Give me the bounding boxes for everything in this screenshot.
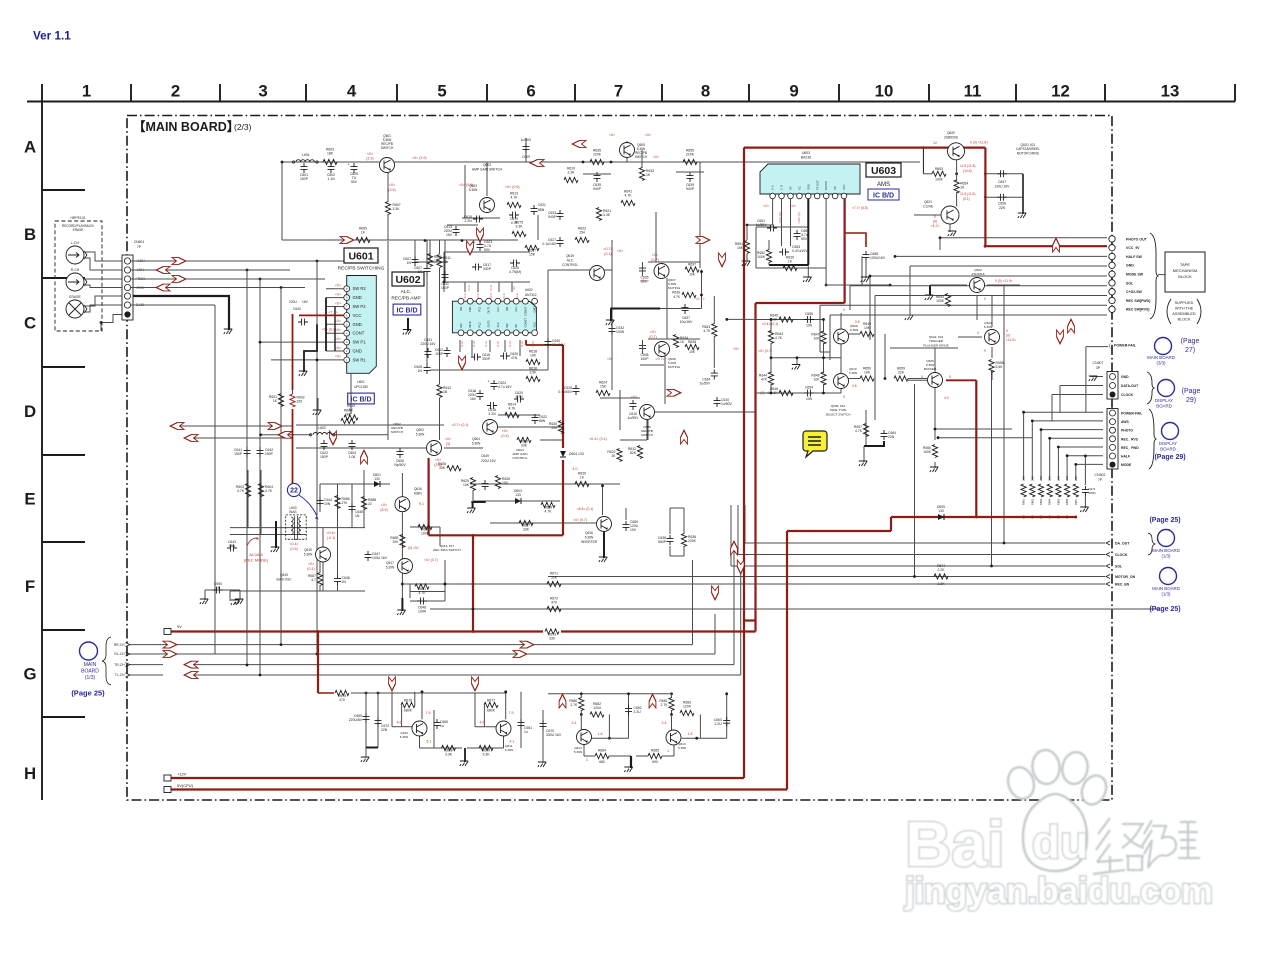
transistor Q602 <box>427 441 442 456</box>
svg-text:<0> (0.7): <0> (0.7) <box>573 518 587 522</box>
svg-text:88N: 88N <box>538 208 545 212</box>
wire U602 in feed <box>443 252 445 292</box>
red band arrow u602 <box>459 356 466 370</box>
wire u602 v427a <box>426 240 428 265</box>
wire q603 feed <box>486 162 488 196</box>
red wire U601 vcc lower <box>292 407 294 484</box>
wire U602 out stub 2 <box>471 340 473 356</box>
diode D604 <box>560 451 584 457</box>
wire c638 rowA link <box>583 173 611 175</box>
svg-text:7P: 7P <box>1098 478 1103 482</box>
wire REC RVS line <box>830 314 1107 316</box>
display board circle 1 <box>1158 380 1175 397</box>
wire bank riser 3 <box>1040 430 1042 480</box>
svg-text:<8.6> (0.1): <8.6> (0.1) <box>577 507 594 511</box>
svg-text:10K: 10K <box>392 540 399 544</box>
red wire 5V diode line <box>891 516 1077 518</box>
junction -LCH bus <box>246 269 249 272</box>
capacitor C606 <box>394 448 406 467</box>
resistor R653 trigger <box>936 294 951 307</box>
channel arrowhead RL-CH <box>126 652 131 656</box>
red band arrow bias <box>361 450 368 464</box>
IC U601 body <box>347 276 377 374</box>
ground C664 <box>859 461 867 466</box>
wire c657 right vert <box>1022 174 1024 214</box>
wire photo drop <box>939 238 941 250</box>
svg-text:C640: C640 <box>293 307 301 311</box>
capacitor C617 <box>472 263 492 271</box>
bus channel 1 <box>316 261 318 654</box>
wire row B u601 top <box>282 239 518 241</box>
svg-text:BLOCK: BLOCK <box>1178 274 1192 279</box>
svg-text:GND: GND <box>1121 375 1129 379</box>
capacitor C612 <box>435 347 451 357</box>
IC U602 ref label <box>392 272 424 286</box>
svg-text:18K: 18K <box>327 152 334 156</box>
svg-text:5.36N: 5.36N <box>400 735 408 739</box>
resistor R655 <box>683 149 697 165</box>
svg-text:<0.7>: <0.7> <box>655 357 664 361</box>
red wire U603 vcc pin <box>843 199 845 303</box>
ground U602 <box>403 330 411 335</box>
red wire 9V rail <box>165 630 756 632</box>
junction row D lch <box>259 433 262 436</box>
wire muting gnd drop <box>610 309 612 322</box>
wire c950 row <box>205 589 240 591</box>
wire q606 row <box>640 411 680 413</box>
svg-text:RR-CH: RR-CH <box>114 643 125 647</box>
capacitor C638 rowA <box>593 172 602 191</box>
red arrow q606 line <box>667 389 681 396</box>
svg-text:120K: 120K <box>683 705 692 709</box>
wire q613 base <box>671 715 673 732</box>
junction r672 <box>472 608 475 611</box>
label tape type switch <box>825 404 850 416</box>
capacitor C641 <box>234 447 251 457</box>
wire r660 bottom <box>934 462 936 468</box>
svg-text:1u/50V: 1u/50V <box>700 382 711 386</box>
svg-text:REC/PB AMP: REC/PB AMP <box>391 296 420 302</box>
wire r614 row <box>498 414 540 416</box>
wire q609 q610 link <box>840 344 842 374</box>
capacitor C632 <box>609 325 625 335</box>
svg-text:<7.7>: <7.7> <box>328 311 337 315</box>
capacitor C653 <box>779 245 808 256</box>
wire c611 drop <box>444 240 446 282</box>
wire u601 swr1 link <box>271 359 326 361</box>
junction row A left <box>281 161 284 164</box>
resistor R675 top2 <box>512 221 526 237</box>
svg-text:<0.1>: <0.1> <box>489 292 493 299</box>
wire q613 gnd heavy <box>630 756 632 768</box>
wire D-row stub 2 <box>184 437 293 439</box>
svg-text:(Page 25): (Page 25) <box>1149 606 1180 613</box>
channel stub RR-CH <box>130 644 163 646</box>
red junction r653 <box>922 146 925 149</box>
junction C671 top <box>1084 455 1087 458</box>
junction tape 771b <box>770 356 773 359</box>
junction rail q613 <box>670 692 673 695</box>
red arrow TL-CH left <box>184 672 198 679</box>
wire d604 row <box>540 439 563 441</box>
resistor R675 clearing <box>334 688 351 698</box>
svg-text:10u/16V: 10u/16V <box>680 320 693 324</box>
resistor R673 clearing <box>543 626 561 636</box>
blue callout circle 22 <box>287 483 300 496</box>
svg-text:4.7N: 4.7N <box>515 395 523 399</box>
svg-text:Q617: Q617 <box>386 561 394 565</box>
svg-text:NF: NF <box>788 186 792 190</box>
svg-text:TR OUT: TR OUT <box>815 180 819 190</box>
svg-text:OUT2: OUT2 <box>487 320 491 328</box>
wire U602 out stub 4 <box>504 340 506 352</box>
svg-text:C609: C609 <box>522 155 530 159</box>
svg-text:5.36N: 5.36N <box>678 746 686 750</box>
bus channel 2 <box>246 270 248 665</box>
svg-text:1.8: 1.8 <box>598 732 603 736</box>
wire muting rail thin <box>660 308 701 310</box>
capacitor C618 <box>471 353 491 361</box>
junction r660 <box>934 428 937 431</box>
wire U601 pin 3 stub <box>326 341 344 343</box>
wire CN307 data line <box>1060 385 1103 387</box>
wire U603 pin3 down <box>790 199 792 246</box>
wire c638 row2 <box>670 555 684 557</box>
svg-text:AN7312: AN7312 <box>525 293 537 297</box>
svg-text:<0> (0.6): <0> (0.6) <box>459 183 474 187</box>
svg-text:1K: 1K <box>788 260 793 264</box>
5V(CPU) pad <box>164 787 171 793</box>
wire CN302 pin line 5 <box>1058 446 1103 448</box>
svg-text:<0.1>: <0.1> <box>502 292 506 299</box>
wire q616 col up <box>602 486 604 515</box>
svg-text:7.9: 7.9 <box>509 711 514 715</box>
junction ch bus 4 <box>316 653 319 656</box>
svg-text:10K: 10K <box>813 337 820 341</box>
capacitor C661 <box>518 719 533 734</box>
junction rowA 2 <box>610 161 613 164</box>
resistor R629 <box>575 472 589 487</box>
junction bank bottom 1 <box>1022 516 1025 519</box>
svg-text:E: E <box>24 490 35 509</box>
svg-text:88N: 88N <box>539 419 546 423</box>
wire q622 gnd heavy <box>929 285 931 296</box>
svg-text:<0>: <0> <box>609 133 615 137</box>
wire CN302 pin line 6 <box>1067 455 1103 457</box>
svg-text:2.4: 2.4 <box>662 721 667 725</box>
svg-text:<4.2>: <4.2> <box>930 224 939 228</box>
watermark Bai text <box>905 808 1005 880</box>
wire q611 emit <box>503 734 505 748</box>
wire TL-CH line <box>184 674 741 676</box>
ground Q616 inv <box>599 557 607 562</box>
ground CN307 <box>1089 376 1097 381</box>
wire q604 gnd heavy <box>471 502 485 508</box>
svg-text:<0>: <0> <box>335 292 341 296</box>
svg-text:CONT: CONT <box>353 331 365 336</box>
svg-text:<0>: <0> <box>631 395 637 399</box>
wire bias rail top <box>320 483 390 485</box>
svg-text:7P: 7P <box>137 245 142 249</box>
wire r653 left drop <box>922 148 924 174</box>
wire row D lch <box>261 434 311 436</box>
capacitor C635 <box>639 265 649 284</box>
resistor R615 <box>526 367 540 382</box>
svg-text:0.1u/50V: 0.1u/50V <box>558 390 572 394</box>
diode D604 clearing <box>558 448 568 460</box>
wire q611 emit row <box>467 747 504 749</box>
svg-text:2.7K: 2.7K <box>570 703 578 707</box>
svg-text:(3/3): (3/3) <box>1156 360 1166 365</box>
transistor Q601 <box>380 134 395 172</box>
red wire U602 vcc drop <box>562 345 564 535</box>
transistor Q611 <box>496 721 511 736</box>
svg-text:BOARD: BOARD <box>1160 446 1176 451</box>
svg-text:1204: 1204 <box>593 706 601 710</box>
red arrow row D stub2 <box>184 435 198 442</box>
resistor R688 <box>361 497 376 510</box>
wire r652 bot <box>768 262 770 265</box>
IC U602 body <box>452 301 536 333</box>
resistor R603 top <box>323 148 337 165</box>
capacitor C646 <box>334 575 350 585</box>
capacitor C671 <box>1082 486 1096 496</box>
wire c664 heavy <box>864 441 884 446</box>
resistor R648 <box>811 372 826 385</box>
wire row D mid 2 <box>380 447 430 449</box>
svg-text:5.36N: 5.36N <box>984 325 992 329</box>
wire under U602 <box>430 369 548 371</box>
svg-text:940P: 940P <box>593 187 602 191</box>
junction +LCH bus <box>316 260 319 263</box>
resistor R645 <box>770 313 793 322</box>
wire q611 base <box>475 726 496 728</box>
wire U601 pin 4 stub <box>326 332 344 334</box>
junction trig 1004 <box>1003 542 1006 545</box>
svg-text:8: 8 <box>701 82 710 101</box>
channel stub TR-CH <box>130 664 163 666</box>
red band arrow ch3 <box>737 560 744 574</box>
page 27 text <box>1181 338 1200 354</box>
svg-text:4.7K: 4.7K <box>855 429 863 433</box>
wire u602 v439c <box>439 398 441 440</box>
svg-text:100K: 100K <box>936 299 945 303</box>
wire L-CH head return to CN601 pin 2 <box>84 258 123 270</box>
capacitor C625 <box>509 260 521 275</box>
wire U601 bus heavy 1 <box>325 298 327 351</box>
junction q624 sol <box>990 565 993 568</box>
watermark jingyan glyphs <box>1093 818 1200 874</box>
red band arrow node2 <box>472 677 479 691</box>
svg-text:2SB909S: 2SB909S <box>944 136 959 140</box>
svg-text:R665: R665 <box>1056 498 1060 505</box>
svg-text:2.7K: 2.7K <box>661 703 669 707</box>
resistor R636 <box>681 534 696 547</box>
wire r602 up <box>292 390 294 394</box>
wire trigger row <box>890 347 958 349</box>
svg-text:220K: 220K <box>593 153 602 157</box>
svg-text:<0>: <0> <box>335 346 341 350</box>
capacitor C621 <box>531 205 545 215</box>
svg-text:R664: R664 <box>1048 498 1052 505</box>
head assembly label HRPE101 <box>70 216 85 220</box>
IC U601 IC B/D label <box>348 393 375 404</box>
svg-text:82K: 82K <box>630 451 637 455</box>
junction U603 pin1 <box>746 224 749 227</box>
resistor R676 <box>401 699 415 708</box>
red wire Q625 collector <box>946 379 976 381</box>
wire SOL2 line <box>731 565 1105 567</box>
wire sol drop <box>849 286 851 310</box>
wire r681 emit <box>671 710 673 715</box>
svg-text:10K: 10K <box>530 354 537 358</box>
capacitor C643 <box>227 540 237 552</box>
svg-text:<1.3>: <1.3> <box>472 340 476 347</box>
wire HALF SW line <box>895 255 1107 257</box>
connector CN601 label <box>134 240 145 249</box>
svg-text:TR-CH: TR-CH <box>114 663 125 667</box>
wire q616b col <box>401 473 403 497</box>
capacitor C658 <box>997 194 1007 201</box>
svg-text:(0.7): (0.7) <box>649 335 656 339</box>
ground C950 right <box>235 599 243 604</box>
svg-text:SELECT SWITCH: SELECT SWITCH <box>825 412 850 416</box>
svg-text:2SD1616: 2SD1616 <box>972 272 985 276</box>
wire -RCH run <box>131 287 305 289</box>
diode D603 <box>515 498 521 504</box>
svg-text:9: 9 <box>789 82 798 101</box>
red wire VCC_9V branch <box>985 245 1107 247</box>
wire U603 gnd rail <box>769 264 808 266</box>
wire GND drop <box>909 266 911 316</box>
wire r684 right <box>609 755 631 757</box>
svg-text:100U/16V: 100U/16V <box>870 256 886 260</box>
svg-text:C. R: C. R <box>780 185 784 190</box>
wire R-CH head return to CN601 pin 4 <box>84 285 123 288</box>
ground bias bottom <box>231 600 239 605</box>
wire RL-CH line <box>163 653 715 655</box>
svg-text:133: 133 <box>374 477 380 481</box>
svg-text:CN307: CN307 <box>1093 361 1104 365</box>
svg-text:0.6: 0.6 <box>855 320 860 324</box>
coil L602 <box>313 433 331 435</box>
wire c658b gnd <box>865 261 867 278</box>
svg-text:27): 27) <box>1185 347 1195 354</box>
svg-text:4.7K: 4.7K <box>509 407 517 411</box>
junction y240 a <box>424 239 427 242</box>
junction +RCH bus <box>259 278 262 281</box>
wire c607 drop <box>414 240 416 262</box>
wire c644 vert <box>319 484 321 512</box>
svg-text:15K: 15K <box>529 253 536 257</box>
ERASE head <box>66 300 84 318</box>
svg-text:AMS: AMS <box>877 182 890 188</box>
svg-text:4.7K: 4.7K <box>703 329 711 333</box>
svg-text:(REC MODE): (REC MODE) <box>244 558 269 563</box>
svg-text:CLOCK: CLOCK <box>1121 393 1134 397</box>
wire d601 row <box>352 483 390 485</box>
capacitor C648b <box>417 598 427 614</box>
resistor R651 <box>735 241 750 254</box>
wire c648 row <box>410 600 445 602</box>
svg-text:1u: 1u <box>440 724 444 728</box>
resistor R613 <box>507 192 521 208</box>
svg-text:R663: R663 <box>1039 498 1043 505</box>
svg-text:133: 133 <box>938 509 944 513</box>
wire out rail right <box>548 693 670 695</box>
wire q625 feed <box>908 379 927 381</box>
wire rec bias right <box>444 560 446 601</box>
resistor R643 center <box>702 324 717 337</box>
svg-text:AMP GAIN SWITCH: AMP GAIN SWITCH <box>472 168 503 172</box>
wire q611 col <box>505 692 507 720</box>
capacitor C670 <box>540 720 562 737</box>
svg-text:(3): (3) <box>446 442 450 446</box>
resistor R661 <box>1021 484 1026 497</box>
svg-text:L601: L601 <box>302 153 310 157</box>
red band arrow mid2 <box>467 241 474 255</box>
red arrow muting <box>696 237 710 244</box>
resistor R634 <box>673 335 688 348</box>
svg-text:<0>: <0> <box>650 330 656 334</box>
wire c638 row <box>670 507 684 509</box>
wire q624 emit <box>991 347 993 358</box>
junction rec en <box>444 583 447 586</box>
wire dens 10 <box>646 420 648 440</box>
wire bias bottom <box>230 590 365 592</box>
wire RR-CH line <box>163 644 693 646</box>
head shield junction <box>100 321 103 324</box>
capacitor C655 <box>804 312 814 323</box>
svg-text:HRPE101: HRPE101 <box>70 216 85 220</box>
+12V pad <box>164 775 171 781</box>
svg-text:220U: 220U <box>289 300 298 304</box>
red band arrow mid1 <box>330 431 337 445</box>
red wire E rail <box>429 534 563 536</box>
wire GND line <box>910 265 1107 267</box>
wire r601 dn <box>280 407 282 430</box>
capacitor C610 <box>628 400 639 420</box>
svg-text:10K: 10K <box>689 273 696 277</box>
wire U602 pin stub 1 <box>464 282 466 292</box>
wire r657 vert <box>865 410 867 446</box>
svg-text:<0.7> (0.1): <0.7> (0.1) <box>452 423 469 427</box>
svg-text:5.36N: 5.36N <box>849 371 857 375</box>
wire E.HD bus <box>214 305 216 654</box>
svg-text:<0>: <0> <box>617 249 623 253</box>
svg-text:15K: 15K <box>600 385 607 389</box>
capacitor C663 <box>714 717 731 727</box>
svg-text:C655: C655 <box>805 312 813 316</box>
resistor R638 <box>685 340 699 350</box>
svg-text:<0.7>: <0.7> <box>695 297 704 301</box>
svg-text:<0.1>: <0.1> <box>467 284 471 291</box>
svg-text:690: 690 <box>652 760 658 764</box>
red junction node drop <box>472 534 475 537</box>
svg-text:3: 3 <box>258 82 267 101</box>
red wire E rail left up <box>428 458 430 535</box>
junction tape 823a <box>822 318 825 321</box>
wire dens 4 <box>447 224 478 226</box>
wire r681 drop <box>671 694 673 698</box>
wire r629b row <box>756 267 826 269</box>
svg-text:IC B/D: IC B/D <box>351 397 372 404</box>
resistor R665 <box>1056 484 1061 497</box>
svg-text:<0> (0.7): <0> (0.7) <box>424 558 438 562</box>
ground C658 decouple <box>861 277 869 282</box>
svg-text:150P: 150P <box>300 177 309 181</box>
svg-text:BLOCK: BLOCK <box>1178 318 1191 322</box>
